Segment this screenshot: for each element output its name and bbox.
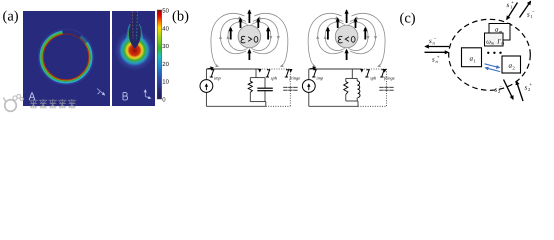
wire resistor bottom lead <box>249 92 251 101</box>
mode box a_2 <box>502 56 521 73</box>
wire bottom rail dotted <box>266 105 291 107</box>
label s_1+ <box>507 1 515 10</box>
resistor (right) <box>344 82 348 95</box>
wire top rail dotted <box>260 68 291 70</box>
wire cap bottom lead <box>264 91 266 102</box>
fringe dotted vertical mid <box>386 69 388 106</box>
label I_sph (right) <box>362 69 377 80</box>
wire top rail dotted <box>362 68 387 70</box>
wire bottom rail solid <box>309 105 358 107</box>
svg-text:20: 20 <box>162 61 169 68</box>
svg-text:fringe: fringe <box>384 76 395 81</box>
cyan V glow right <box>140 26 143 41</box>
fringe capacitors (right) <box>379 87 393 90</box>
label A <box>29 93 35 101</box>
svg-text:+: + <box>529 83 532 88</box>
field loop mid <box>318 19 344 54</box>
wire resistor bottom lead <box>345 95 347 102</box>
black polarization arrows eps>0 <box>231 11 268 61</box>
arrow left inner <box>240 19 242 29</box>
ring red inner edge <box>43 34 89 80</box>
current source I_imp (left) <box>200 80 213 93</box>
svg-text:+: + <box>437 56 440 61</box>
svg-text:10: 10 <box>162 79 169 86</box>
svg-text:+: + <box>511 1 514 6</box>
wire branch stem <box>351 69 353 78</box>
heatmap B background <box>112 11 157 106</box>
wire riser above source <box>308 69 310 80</box>
svg-text:1: 1 <box>474 59 476 64</box>
colorbar <box>157 8 169 104</box>
port n outgoing arrow s_n- <box>426 46 450 48</box>
label I_fringe (left) <box>285 69 301 80</box>
wire branch top bar <box>346 77 357 79</box>
wire branch bottom bar <box>346 100 358 102</box>
arrow bottom <box>346 50 348 60</box>
arrow bottom <box>248 50 250 60</box>
watermark text glyphs <box>30 99 77 108</box>
arrow right inner <box>355 19 357 29</box>
label s_n+ <box>432 56 440 65</box>
svg-text:−: − <box>434 37 437 42</box>
port 2 outgoing arrow s_2- <box>504 80 514 100</box>
hotspot blob <box>112 28 157 73</box>
dark groove teardrop <box>129 13 141 48</box>
field line outer to ground <box>211 13 245 66</box>
ring red inner band <box>43 34 90 81</box>
svg-text:fringe: fringe <box>290 76 301 81</box>
wire branch bottom riser <box>357 101 359 106</box>
wire resistor top lead <box>345 78 347 81</box>
arrow right inner <box>257 19 259 29</box>
svg-text:2: 2 <box>513 65 515 70</box>
svg-text:−: − <box>532 11 535 16</box>
wire top rail solid <box>206 68 259 70</box>
svg-text:sph: sph <box>370 76 377 81</box>
wire inductor bottom lead <box>356 98 358 102</box>
wire branch bottom riser <box>265 102 267 107</box>
field line outer to ground <box>254 13 288 66</box>
field loop inner <box>325 22 345 50</box>
port n incoming arrow s_n+ <box>425 51 449 53</box>
wire riser below source <box>308 92 310 106</box>
field arrowheads <box>227 37 229 39</box>
port 1 outgoing arrow s_1- <box>520 2 531 18</box>
wire top rail solid <box>309 68 362 70</box>
fringe capacitors (left) <box>283 87 297 90</box>
arrow left outer <box>327 28 329 40</box>
wire cap top lead <box>264 78 266 89</box>
field line outer to ground <box>308 13 342 66</box>
label I_fringe (right) <box>380 69 395 80</box>
capacitor (left) <box>257 88 273 91</box>
faint red across gap <box>62 34 80 39</box>
ellipsis dots <box>487 52 502 54</box>
inductor (right) <box>357 81 360 97</box>
mode box omega_m Gamma_m (front) <box>485 33 505 46</box>
wire resistor top lead <box>249 78 251 82</box>
field lines (gt) <box>211 13 288 66</box>
channel dashed line left <box>131 11 134 39</box>
ring top gap <box>63 32 81 36</box>
ring green band <box>42 33 90 81</box>
sphere eps>0 <box>238 25 261 48</box>
label s_2+ <box>525 83 533 92</box>
axis icon B <box>145 90 150 98</box>
black polarization arrows eps<0 <box>328 11 365 61</box>
label s_n- <box>429 37 437 46</box>
field line outer to ground <box>352 13 386 66</box>
dashed resonator ellipse <box>449 19 531 90</box>
label I_imp (left) <box>207 68 221 81</box>
svg-text:0: 0 <box>162 97 166 104</box>
svg-text:(b): (b) <box>172 9 189 25</box>
ring cyan band <box>41 32 92 83</box>
sphere eps<0 <box>335 25 358 48</box>
svg-text:30: 30 <box>162 43 169 50</box>
arrow top <box>346 11 348 24</box>
wire riser below source <box>205 92 207 106</box>
mode box a_1 <box>462 48 482 67</box>
svg-text:−: − <box>499 85 502 90</box>
arrow top <box>248 11 250 24</box>
field loop inner <box>349 22 369 50</box>
channel dashed line right <box>136 11 139 39</box>
wire inductor top lead <box>356 78 358 81</box>
label s_1- <box>527 11 535 20</box>
resistor (left) <box>248 81 252 92</box>
label I_imp (right) <box>310 68 324 81</box>
axis icon A <box>97 89 105 95</box>
wire riser above source <box>205 69 207 80</box>
wire bottom rail solid <box>206 105 265 107</box>
arrow left inner <box>337 19 339 29</box>
ring outer glow <box>39 30 92 83</box>
cyan V glow left <box>126 26 129 41</box>
field loop mid <box>253 19 278 54</box>
current source I_imp (right) <box>302 80 315 93</box>
svg-text:imp: imp <box>316 76 324 81</box>
label B <box>123 93 128 100</box>
green V glow right <box>139 24 142 41</box>
field lines (lt) <box>308 13 385 66</box>
label s_2- <box>495 85 503 94</box>
field arrowheads <box>270 37 272 39</box>
svg-text:imp: imp <box>214 76 222 81</box>
green V glow left <box>128 24 131 41</box>
svg-text:50: 50 <box>162 8 169 15</box>
watermark logo <box>4 94 24 111</box>
svg-text:m: m <box>491 41 494 46</box>
field loop inner <box>228 22 248 50</box>
field arrowheads <box>324 37 326 39</box>
port 2 incoming arrow s_2+ <box>517 82 524 102</box>
svg-text:(a): (a) <box>3 9 19 25</box>
field arrowheads <box>367 37 369 39</box>
wire branch stem <box>255 69 257 78</box>
wire bottom rail dotted <box>358 105 387 107</box>
port 1 incoming arrow s_1+ <box>507 3 518 20</box>
fringe dotted vertical <box>289 69 291 106</box>
arrow right outer <box>364 28 366 40</box>
svg-text:m: m <box>501 41 504 46</box>
svg-text:sph: sph <box>271 76 278 81</box>
blue coupling arrows <box>485 64 501 72</box>
field loop mid <box>221 19 247 54</box>
svg-text:(c): (c) <box>400 11 416 27</box>
wire branch bottom bar <box>250 101 265 103</box>
field loop mid <box>350 19 376 54</box>
label I_sph (left) <box>260 69 278 80</box>
wire branch top bar <box>250 77 265 79</box>
mode box a_m (back) <box>489 24 510 41</box>
ring green left emphasis <box>41 33 61 79</box>
arrow left outer <box>230 28 232 40</box>
heatmap A background <box>23 11 110 106</box>
arrow right outer <box>267 28 269 40</box>
field loop inner <box>251 22 270 50</box>
svg-text:40: 40 <box>162 25 169 32</box>
